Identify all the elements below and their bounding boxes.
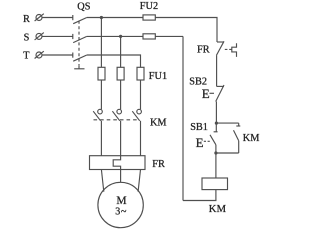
wire FR to motor 2 [120, 170, 122, 183]
terminal R [35, 14, 44, 21]
svg-text:FU2: FU2 [140, 1, 158, 12]
QS mechanical link (dashed) [78, 21, 80, 66]
junction on S line [119, 35, 122, 38]
junction on R line [100, 16, 103, 19]
terminal T [35, 51, 44, 58]
wire FU1 pole3 to KM contact [140, 80, 142, 109]
wire FR to motor 1 [101, 170, 103, 192]
disconnect switch QS pole 2 [73, 34, 87, 43]
svg-text:R: R [23, 14, 30, 25]
svg-text:E: E [196, 135, 204, 150]
svg-text:SB2: SB2 [189, 77, 207, 88]
svg-text:3~: 3~ [115, 207, 127, 218]
svg-text:KM: KM [243, 133, 260, 144]
left rail wire [182, 36, 184, 200]
wire SB2 to branch junction [215, 102, 217, 124]
KM auxiliary contact [234, 123, 241, 153]
SB2 actuator E [202, 86, 214, 101]
fuse FU2 upper [143, 15, 155, 20]
svg-text:E: E [202, 86, 210, 101]
svg-text:QS: QS [77, 2, 90, 13]
wire phase 1 drop to FU1 [100, 18, 102, 68]
svg-text:T: T [23, 51, 30, 62]
SB1 actuator E [196, 135, 210, 150]
contactor KM main contact 1 [93, 109, 102, 121]
wire FR contact to SB2 [216, 55, 218, 86]
QS handle [74, 66, 84, 69]
wire R line to fuse FU2a [87, 17, 143, 19]
svg-text:S: S [24, 32, 30, 43]
wire coil to bottom rail [183, 190, 216, 201]
wire R terminal to QS [42, 17, 73, 19]
disconnect switch QS pole 1 [73, 15, 87, 24]
junction branch top [215, 122, 218, 125]
KM contacts mechanical link (dashed) [94, 119, 139, 121]
svg-text:FU1: FU1 [149, 71, 167, 82]
wire KM contact3 to FR box [140, 121, 142, 156]
wire KM contact1 to FR box [100, 121, 102, 156]
wire FR to motor 3 [138, 170, 140, 192]
wire phase 2 drop to FU1 [120, 36, 122, 67]
contactor KM main contact 2 [112, 109, 121, 121]
pushbutton SB2 NC stop [216, 85, 224, 102]
wire T line turning down [87, 55, 141, 67]
FR thermal actuator hook [232, 43, 237, 57]
wire branch top to KM aux [216, 122, 238, 124]
thermal overload relay FR heater box [90, 156, 146, 170]
contactor KM main contact 3 [132, 109, 141, 121]
svg-text:M: M [116, 195, 126, 207]
wire KM aux bottom to junction [216, 152, 239, 154]
wire KM contact2 to FR box [120, 121, 122, 156]
svg-text:SB1: SB1 [190, 122, 208, 133]
svg-text:KM: KM [209, 204, 227, 215]
wire junction to coil [215, 153, 217, 178]
fuse FU2 lower [143, 34, 155, 39]
wire S terminal to QS [42, 35, 73, 37]
motor M circle [98, 182, 143, 227]
fuse FU1 pole 3 [137, 67, 144, 80]
fuse FU1 pole 2 [117, 67, 124, 80]
fuse FU1 pole 1 [98, 67, 105, 80]
wire FU1 pole1 to KM contact [100, 80, 102, 109]
wire FU2 lower to left rail corner [155, 35, 183, 37]
contactor coil KM [202, 178, 228, 190]
wire FU1 pole2 to KM contact [120, 80, 122, 109]
FR NC contact (control) [216, 41, 224, 55]
svg-text:FR: FR [152, 159, 165, 170]
svg-text:FR: FR [197, 44, 210, 55]
wire S line to fuse FU2b [87, 35, 143, 37]
disconnect switch QS pole 3 [73, 53, 87, 62]
terminal S [35, 33, 44, 40]
FR heater element [113, 156, 120, 170]
svg-text:KM: KM [150, 118, 167, 129]
junction branch bottom [214, 151, 217, 154]
wire FU2 upper to right rail [155, 18, 217, 43]
pushbutton SB1 NO start [210, 123, 218, 153]
FR contact link dashes [225, 48, 232, 50]
wire T terminal to QS [42, 54, 73, 56]
